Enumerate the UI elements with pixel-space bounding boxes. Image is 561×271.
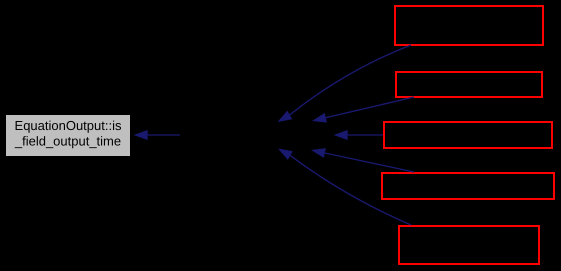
svg-text:_field_output_time: _field_output_time: [14, 133, 121, 148]
edge: caller box 5 -> middle node: [278, 149, 411, 226]
edge: middle node -> EquationOutput::is_field_output_time: [134, 130, 181, 140]
node: caller box 1 (top, red border, text hidden): [395, 6, 543, 45]
node: caller box 3 (red border, text hidden): [384, 122, 552, 148]
edge: caller box 2 -> middle node: [312, 97, 414, 123]
edge: caller box 1 -> middle node: [278, 45, 412, 122]
svg-text:EquationOutput::is: EquationOutput::is: [15, 118, 122, 133]
node: caller box 4 (red border, text hidden): [382, 173, 554, 199]
node: caller box 2 (red border, text hidden): [396, 72, 542, 97]
node: EquationOutput::is_field_output_time (current node, grey): [6, 115, 130, 156]
edge: caller box 4 -> middle node: [311, 148, 414, 172]
edge: caller box 3 -> middle node: [334, 130, 384, 140]
node: caller box 5 (bottom, red border, text hidden): [399, 226, 539, 264]
